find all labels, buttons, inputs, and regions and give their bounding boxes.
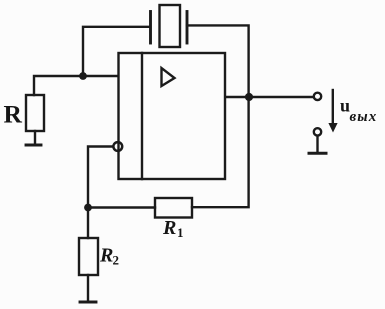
svg-text:R: R	[4, 100, 23, 129]
svg-text:1: 1	[177, 225, 184, 240]
svg-text:R: R	[162, 217, 176, 239]
svg-text:R: R	[99, 245, 113, 267]
svg-text:2: 2	[113, 253, 120, 268]
svg-text:u: u	[340, 96, 350, 116]
svg-text:вых: вых	[350, 109, 378, 125]
